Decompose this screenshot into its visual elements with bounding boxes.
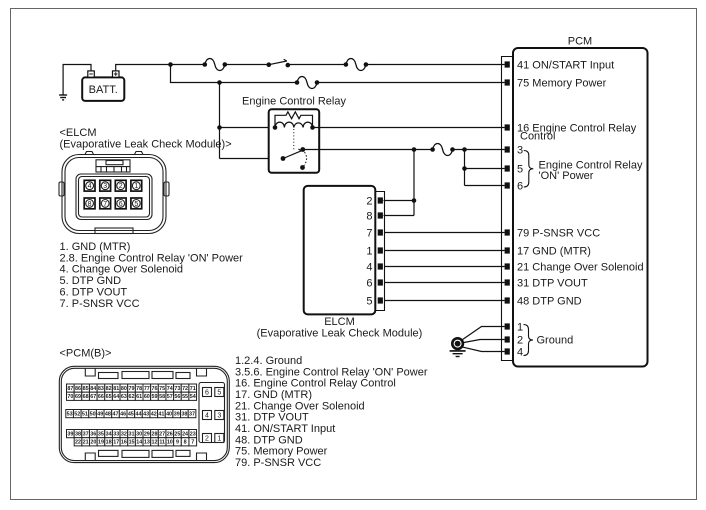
- fuse F1: [205, 59, 225, 71]
- svg-text:31. DTP VOUT: 31. DTP VOUT: [235, 412, 309, 424]
- svg-text:42: 42: [151, 412, 157, 418]
- svg-text:5: 5: [134, 201, 138, 208]
- brace pins 3/5/6: [524, 151, 534, 188]
- relay box K1: [269, 109, 320, 173]
- svg-text:4. Change Over Solenoid: 4. Change Over Solenoid: [60, 264, 184, 276]
- ELCM pin 1: [378, 247, 383, 253]
- PCM box U1: [513, 48, 648, 367]
- PCM pin 16: [505, 124, 510, 130]
- svg-text:79. P-SNSR VCC: 79. P-SNSR VCC: [235, 457, 321, 469]
- svg-text:5: 5: [366, 296, 372, 308]
- svg-text:26: 26: [167, 432, 173, 438]
- svg-text:43: 43: [143, 412, 149, 418]
- svg-text:3: 3: [517, 145, 523, 157]
- svg-text:40: 40: [166, 412, 172, 418]
- svg-text:28: 28: [151, 432, 157, 438]
- wire to relay coil: [220, 127, 276, 129]
- svg-text:87: 87: [67, 386, 73, 392]
- svg-text:6: 6: [119, 201, 123, 208]
- svg-text:34: 34: [106, 432, 112, 438]
- svg-text:8: 8: [88, 201, 92, 208]
- brace pins 1/2/4: [524, 325, 534, 356]
- wire node A down to memory power bus: [171, 65, 220, 83]
- svg-text:5: 5: [517, 164, 523, 176]
- svg-text:9: 9: [176, 440, 179, 446]
- ground (battery negative): [63, 65, 91, 96]
- svg-text:6. DTP VOUT: 6. DTP VOUT: [60, 287, 128, 299]
- svg-text:39: 39: [174, 412, 180, 418]
- svg-text:79 P-SNSR VCC: 79 P-SNSR VCC: [517, 228, 600, 240]
- svg-text:63: 63: [121, 394, 127, 400]
- svg-text:1.2.4. Ground: 1.2.4. Ground: [235, 355, 302, 367]
- svg-text:75: 75: [159, 386, 165, 392]
- svg-text:81: 81: [113, 386, 119, 392]
- wire to pin 3: [453, 149, 505, 151]
- ELCM face pin 5: [131, 198, 142, 209]
- node A junction: [168, 62, 173, 67]
- svg-text:61: 61: [136, 394, 142, 400]
- svg-text:15: 15: [129, 440, 135, 446]
- svg-text:<ELCM: <ELCM: [60, 127, 97, 139]
- wire: [288, 64, 346, 66]
- svg-text:44: 44: [135, 412, 141, 418]
- PCM pin 4: [505, 348, 510, 354]
- svg-text:56: 56: [174, 394, 180, 400]
- svg-text:50: 50: [90, 412, 96, 418]
- svg-text:37: 37: [189, 412, 195, 418]
- node C junction: [217, 125, 222, 130]
- svg-text:2: 2: [205, 436, 209, 443]
- PCM(B) large pins 6/5/4/3/2/1: [203, 388, 212, 397]
- PCM pin 3: [505, 146, 510, 152]
- svg-text:14: 14: [136, 440, 142, 446]
- svg-text:39: 39: [67, 432, 73, 438]
- PCM pin 1: [505, 323, 510, 329]
- svg-text:4: 4: [366, 262, 372, 274]
- svg-text:74: 74: [167, 386, 173, 392]
- svg-text:11: 11: [159, 440, 165, 446]
- svg-text:17. GND (MTR): 17. GND (MTR): [235, 389, 312, 401]
- svg-text:66: 66: [98, 394, 104, 400]
- svg-text:ELCM: ELCM: [324, 316, 355, 328]
- svg-text:22: 22: [75, 440, 81, 446]
- wire ELCM 4-21: [385, 266, 505, 268]
- svg-text:38: 38: [181, 412, 187, 418]
- svg-text:Ground: Ground: [537, 335, 574, 347]
- ELCM connector face: [59, 152, 169, 234]
- svg-text:BATT.: BATT.: [89, 84, 118, 96]
- svg-text:48 DTP GND: 48 DTP GND: [517, 296, 582, 308]
- svg-text:33: 33: [113, 432, 119, 438]
- wire ground to pin 4: [462, 347, 505, 352]
- svg-text:27: 27: [159, 432, 165, 438]
- svg-text:16: 16: [121, 440, 127, 446]
- node D junction: [412, 147, 417, 152]
- wire to relay switch common: [220, 158, 284, 160]
- svg-text:21: 21: [83, 440, 89, 446]
- svg-text:29: 29: [144, 432, 150, 438]
- svg-text:1: 1: [366, 246, 372, 258]
- svg-text:30: 30: [136, 432, 142, 438]
- svg-text:12: 12: [152, 440, 158, 446]
- PCM pin 48: [505, 297, 510, 303]
- svg-text:2: 2: [366, 196, 372, 208]
- wire to pin 41: [366, 64, 505, 66]
- relay resistor: [275, 112, 313, 128]
- svg-text:1: 1: [217, 436, 221, 443]
- svg-text:7: 7: [191, 440, 194, 446]
- wire to pin 75: [317, 82, 505, 84]
- svg-text:Control: Control: [520, 131, 555, 143]
- svg-text:53: 53: [67, 412, 73, 418]
- relay armature link (dotted): [293, 129, 295, 151]
- wire: [220, 82, 298, 84]
- node F junction: [462, 166, 467, 171]
- svg-text:20: 20: [90, 440, 96, 446]
- svg-text:31: 31: [129, 432, 135, 438]
- svg-text:35: 35: [98, 432, 104, 438]
- ELCM face pin 6: [115, 198, 126, 209]
- svg-text:69: 69: [75, 394, 81, 400]
- relay coil: [275, 122, 313, 127]
- ELCM pin 5: [378, 297, 383, 303]
- svg-text:5. DTP GND: 5. DTP GND: [60, 275, 122, 287]
- svg-text:25: 25: [174, 432, 180, 438]
- svg-text:PCM: PCM: [568, 36, 592, 48]
- PCM pin 2: [505, 336, 510, 342]
- node B junction: [217, 80, 222, 85]
- ELCM connector strip: [375, 192, 384, 311]
- svg-text:84: 84: [90, 386, 96, 392]
- svg-text:7: 7: [366, 228, 372, 240]
- wire relay coil to pin 16: [313, 127, 505, 129]
- svg-text:49: 49: [97, 412, 103, 418]
- svg-text:32: 32: [121, 432, 127, 438]
- svg-text:1: 1: [134, 183, 138, 190]
- svg-text:55: 55: [182, 394, 188, 400]
- ground (PCM): [452, 338, 463, 349]
- svg-text:Engine Control Relay: Engine Control Relay: [242, 96, 346, 108]
- svg-text:76: 76: [151, 386, 157, 392]
- PCM(B) pin row 4: [67, 430, 75, 438]
- wire to pin 5: [465, 168, 505, 170]
- wire ELCM 7-79: [385, 232, 505, 234]
- svg-text:7. P-SNSR VCC: 7. P-SNSR VCC: [60, 298, 140, 310]
- node E junction: [462, 147, 467, 152]
- ELCM face pin 3: [100, 180, 111, 191]
- battery BATT.: [82, 77, 124, 101]
- PCM pin 79: [505, 229, 510, 235]
- PCM pin 41: [505, 61, 510, 67]
- wire ground to pin 2: [463, 340, 504, 343]
- ELCM module box: [304, 186, 376, 315]
- relay switch: [281, 156, 286, 161]
- wire to ELCM pin 8: [384, 215, 415, 217]
- svg-text:2: 2: [119, 183, 123, 190]
- svg-text:77: 77: [144, 386, 150, 392]
- svg-text:73: 73: [174, 386, 180, 392]
- svg-text:6: 6: [205, 390, 209, 397]
- fuse F4: [433, 144, 453, 156]
- wire battery+ to node A: [116, 65, 171, 71]
- svg-text:36: 36: [90, 432, 96, 438]
- svg-text:1: 1: [517, 322, 523, 334]
- svg-text:85: 85: [83, 386, 89, 392]
- svg-text:82: 82: [106, 386, 112, 392]
- svg-text:37: 37: [83, 432, 89, 438]
- PCM(B) pin row 1: [67, 384, 75, 392]
- ELCM face pin 2: [115, 180, 126, 191]
- ELCM face pin 7: [100, 198, 111, 209]
- svg-text:31 DTP VOUT: 31 DTP VOUT: [517, 278, 588, 290]
- wire node E down: [464, 150, 466, 186]
- svg-text:6: 6: [366, 278, 372, 290]
- svg-text:17 GND (MTR): 17 GND (MTR): [517, 246, 591, 258]
- svg-text:17: 17: [113, 440, 119, 446]
- svg-text:58: 58: [159, 394, 165, 400]
- svg-text:10: 10: [167, 440, 173, 446]
- svg-text:18: 18: [106, 440, 112, 446]
- PCM(B) pin row 3: [66, 410, 74, 418]
- svg-text:8: 8: [184, 440, 187, 446]
- svg-text:3: 3: [103, 183, 107, 190]
- svg-text:24: 24: [182, 432, 188, 438]
- svg-text:72: 72: [182, 386, 188, 392]
- PCM pin 31: [505, 279, 510, 285]
- PCM pin 6: [505, 182, 510, 188]
- ELCM face pin 8: [84, 198, 95, 209]
- svg-text:(Evaporative Leak Check Module: (Evaporative Leak Check Module)>: [60, 138, 232, 150]
- svg-text:2: 2: [517, 335, 523, 347]
- svg-text:46: 46: [120, 412, 126, 418]
- svg-text:4: 4: [517, 347, 523, 359]
- wire to ELCM pin 2: [384, 200, 415, 202]
- svg-text:78: 78: [136, 386, 142, 392]
- svg-text:45: 45: [128, 412, 134, 418]
- fuse F2: [346, 59, 366, 71]
- svg-text:62: 62: [129, 394, 135, 400]
- PCM(B) pin row 5: [74, 438, 82, 446]
- svg-text:'ON' Power: 'ON' Power: [539, 170, 594, 182]
- fuse F3: [297, 77, 317, 89]
- wire ELCM 6-31: [385, 282, 505, 284]
- svg-text:80: 80: [121, 386, 127, 392]
- wire node D down to ELCM: [413, 150, 415, 216]
- ELCM face pin 1: [131, 180, 142, 191]
- node G junction: [412, 198, 417, 203]
- wire: [225, 64, 269, 66]
- svg-text:8: 8: [366, 211, 372, 223]
- svg-text:54: 54: [190, 394, 196, 400]
- PCM connector strip: [502, 57, 514, 361]
- wire ground to pin 1: [462, 327, 505, 341]
- svg-text:38: 38: [75, 432, 81, 438]
- ELCM pin 8: [378, 212, 383, 218]
- PCM(B) pin row 2: [67, 392, 75, 400]
- svg-text:57: 57: [167, 394, 173, 400]
- wire relay output: [303, 149, 433, 151]
- svg-text:21 Change Over Solenoid: 21 Change Over Solenoid: [517, 262, 644, 274]
- PCM pin 21: [505, 263, 510, 269]
- svg-text:75. Memory Power: 75. Memory Power: [235, 446, 328, 458]
- svg-text:41 ON/START Input: 41 ON/START Input: [517, 60, 614, 72]
- ignition switch: [267, 62, 272, 67]
- svg-text:23: 23: [190, 432, 196, 438]
- svg-text:3: 3: [217, 413, 221, 420]
- wire ELCM 5-48: [385, 300, 505, 302]
- wire: [171, 64, 205, 66]
- svg-text:51: 51: [82, 412, 88, 418]
- svg-text:83: 83: [98, 386, 104, 392]
- svg-text:41: 41: [158, 412, 164, 418]
- svg-text:7: 7: [103, 201, 107, 208]
- svg-text:6: 6: [517, 181, 523, 193]
- svg-text:16. Engine Control Relay Contr: 16. Engine Control Relay Control: [235, 378, 396, 390]
- wire node B down to relay: [219, 83, 221, 159]
- svg-text:59: 59: [151, 394, 157, 400]
- svg-text:48. DTP GND: 48. DTP GND: [235, 434, 303, 446]
- svg-text:(Evaporative Leak Check Module: (Evaporative Leak Check Module): [257, 328, 423, 340]
- ELCM face pin 4: [84, 180, 95, 191]
- svg-text:<PCM(B)>: <PCM(B)>: [60, 348, 112, 360]
- svg-text:67: 67: [90, 394, 96, 400]
- svg-text:64: 64: [113, 394, 119, 400]
- svg-text:70: 70: [67, 394, 73, 400]
- PCM pin 75: [505, 79, 510, 85]
- ELCM pin 7: [378, 229, 383, 235]
- svg-text:2.8. Engine Control Relay 'ON': 2.8. Engine Control Relay 'ON' Power: [60, 252, 244, 264]
- svg-text:86: 86: [75, 386, 81, 392]
- svg-text:4: 4: [205, 413, 209, 420]
- svg-text:75 Memory Power: 75 Memory Power: [517, 78, 607, 90]
- svg-text:3.5.6. Engine Control Relay 'O: 3.5.6. Engine Control Relay 'ON' Power: [235, 366, 428, 378]
- ELCM pin 6: [378, 279, 383, 285]
- PCM pin 5: [505, 165, 510, 171]
- svg-text:4: 4: [88, 183, 92, 190]
- wire to pin 6: [465, 185, 505, 187]
- svg-text:1. GND (MTR): 1. GND (MTR): [60, 241, 131, 253]
- svg-text:71: 71: [190, 386, 196, 392]
- svg-text:52: 52: [74, 412, 80, 418]
- svg-text:47: 47: [113, 412, 119, 418]
- svg-text:48: 48: [105, 412, 111, 418]
- svg-text:21. Change Over Solenoid: 21. Change Over Solenoid: [235, 400, 365, 412]
- ELCM pin 2: [378, 197, 383, 203]
- svg-text:60: 60: [144, 394, 150, 400]
- svg-text:5: 5: [217, 390, 221, 397]
- svg-text:13: 13: [144, 440, 150, 446]
- ELCM pin 4: [378, 263, 383, 269]
- svg-text:79: 79: [129, 386, 135, 392]
- PCM(B) connector face: [59, 366, 229, 462]
- wire ELCM 1-17: [385, 250, 505, 252]
- svg-text:65: 65: [106, 394, 112, 400]
- svg-text:68: 68: [83, 394, 89, 400]
- svg-text:41. ON/START Input: 41. ON/START Input: [235, 423, 335, 435]
- svg-text:19: 19: [98, 440, 104, 446]
- PCM pin 17: [505, 247, 510, 253]
